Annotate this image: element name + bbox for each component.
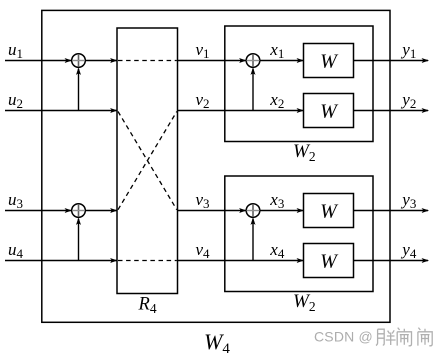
wire adder A2 to W (row1)	[260, 58, 304, 63]
wire W (row2) output y2	[354, 108, 430, 113]
wire branch u4 up to adder A3	[76, 217, 81, 260]
wire v1 to adder A2	[178, 58, 247, 63]
adder A3	[72, 204, 86, 218]
wire adder A3 to R4	[86, 208, 118, 213]
dashed path row1 through R4	[118, 60, 177, 62]
svg-text:W: W	[320, 51, 339, 73]
wire adder A4 to W (row3)	[260, 208, 304, 213]
svg-text:CSDN @: CSDN @	[314, 328, 373, 344]
dashed cross u3-to-v2 in R4	[118, 112, 177, 210]
wire W (row4) output y4	[354, 258, 430, 263]
wire branch x2 up to adder A2	[251, 67, 256, 110]
box W (row4)	[304, 244, 354, 278]
dashed cross u2-to-v3 in R4	[118, 112, 177, 210]
adder A2	[246, 54, 260, 68]
svg-text:W: W	[320, 101, 339, 123]
block W2 top box	[225, 26, 373, 142]
block R4 box	[117, 28, 178, 294]
box W (row2)	[304, 94, 354, 128]
wire v2 to W (row2)	[178, 108, 305, 113]
dashed path row4 through R4	[118, 260, 177, 262]
svg-text:W: W	[320, 251, 339, 273]
box W (row1)	[304, 44, 354, 78]
wire v3 to adder A4	[178, 208, 247, 213]
svg-text:W: W	[320, 201, 339, 223]
adder A4	[246, 204, 260, 218]
wire u4 input	[5, 258, 118, 263]
watermark char pang	[376, 329, 396, 345]
wire W (row3) output y3	[354, 208, 430, 213]
box W (row3)	[304, 194, 354, 228]
wire adder A1 to R4	[86, 58, 118, 63]
wire branch u2 up to adder A1	[76, 67, 81, 110]
wire u3 input	[5, 208, 72, 213]
wire W (row1) output y1	[354, 58, 430, 63]
outer box W4	[42, 10, 390, 322]
wire v4 to W (row4)	[178, 258, 305, 263]
watermark char nao1	[397, 328, 411, 346]
watermark char nao2	[418, 328, 432, 346]
adder A1	[72, 54, 86, 68]
wire u1 input	[5, 58, 72, 63]
wire branch x4 up to adder A4	[251, 217, 256, 260]
block W2 bottom box	[225, 176, 373, 292]
wire u2 input	[5, 108, 118, 113]
